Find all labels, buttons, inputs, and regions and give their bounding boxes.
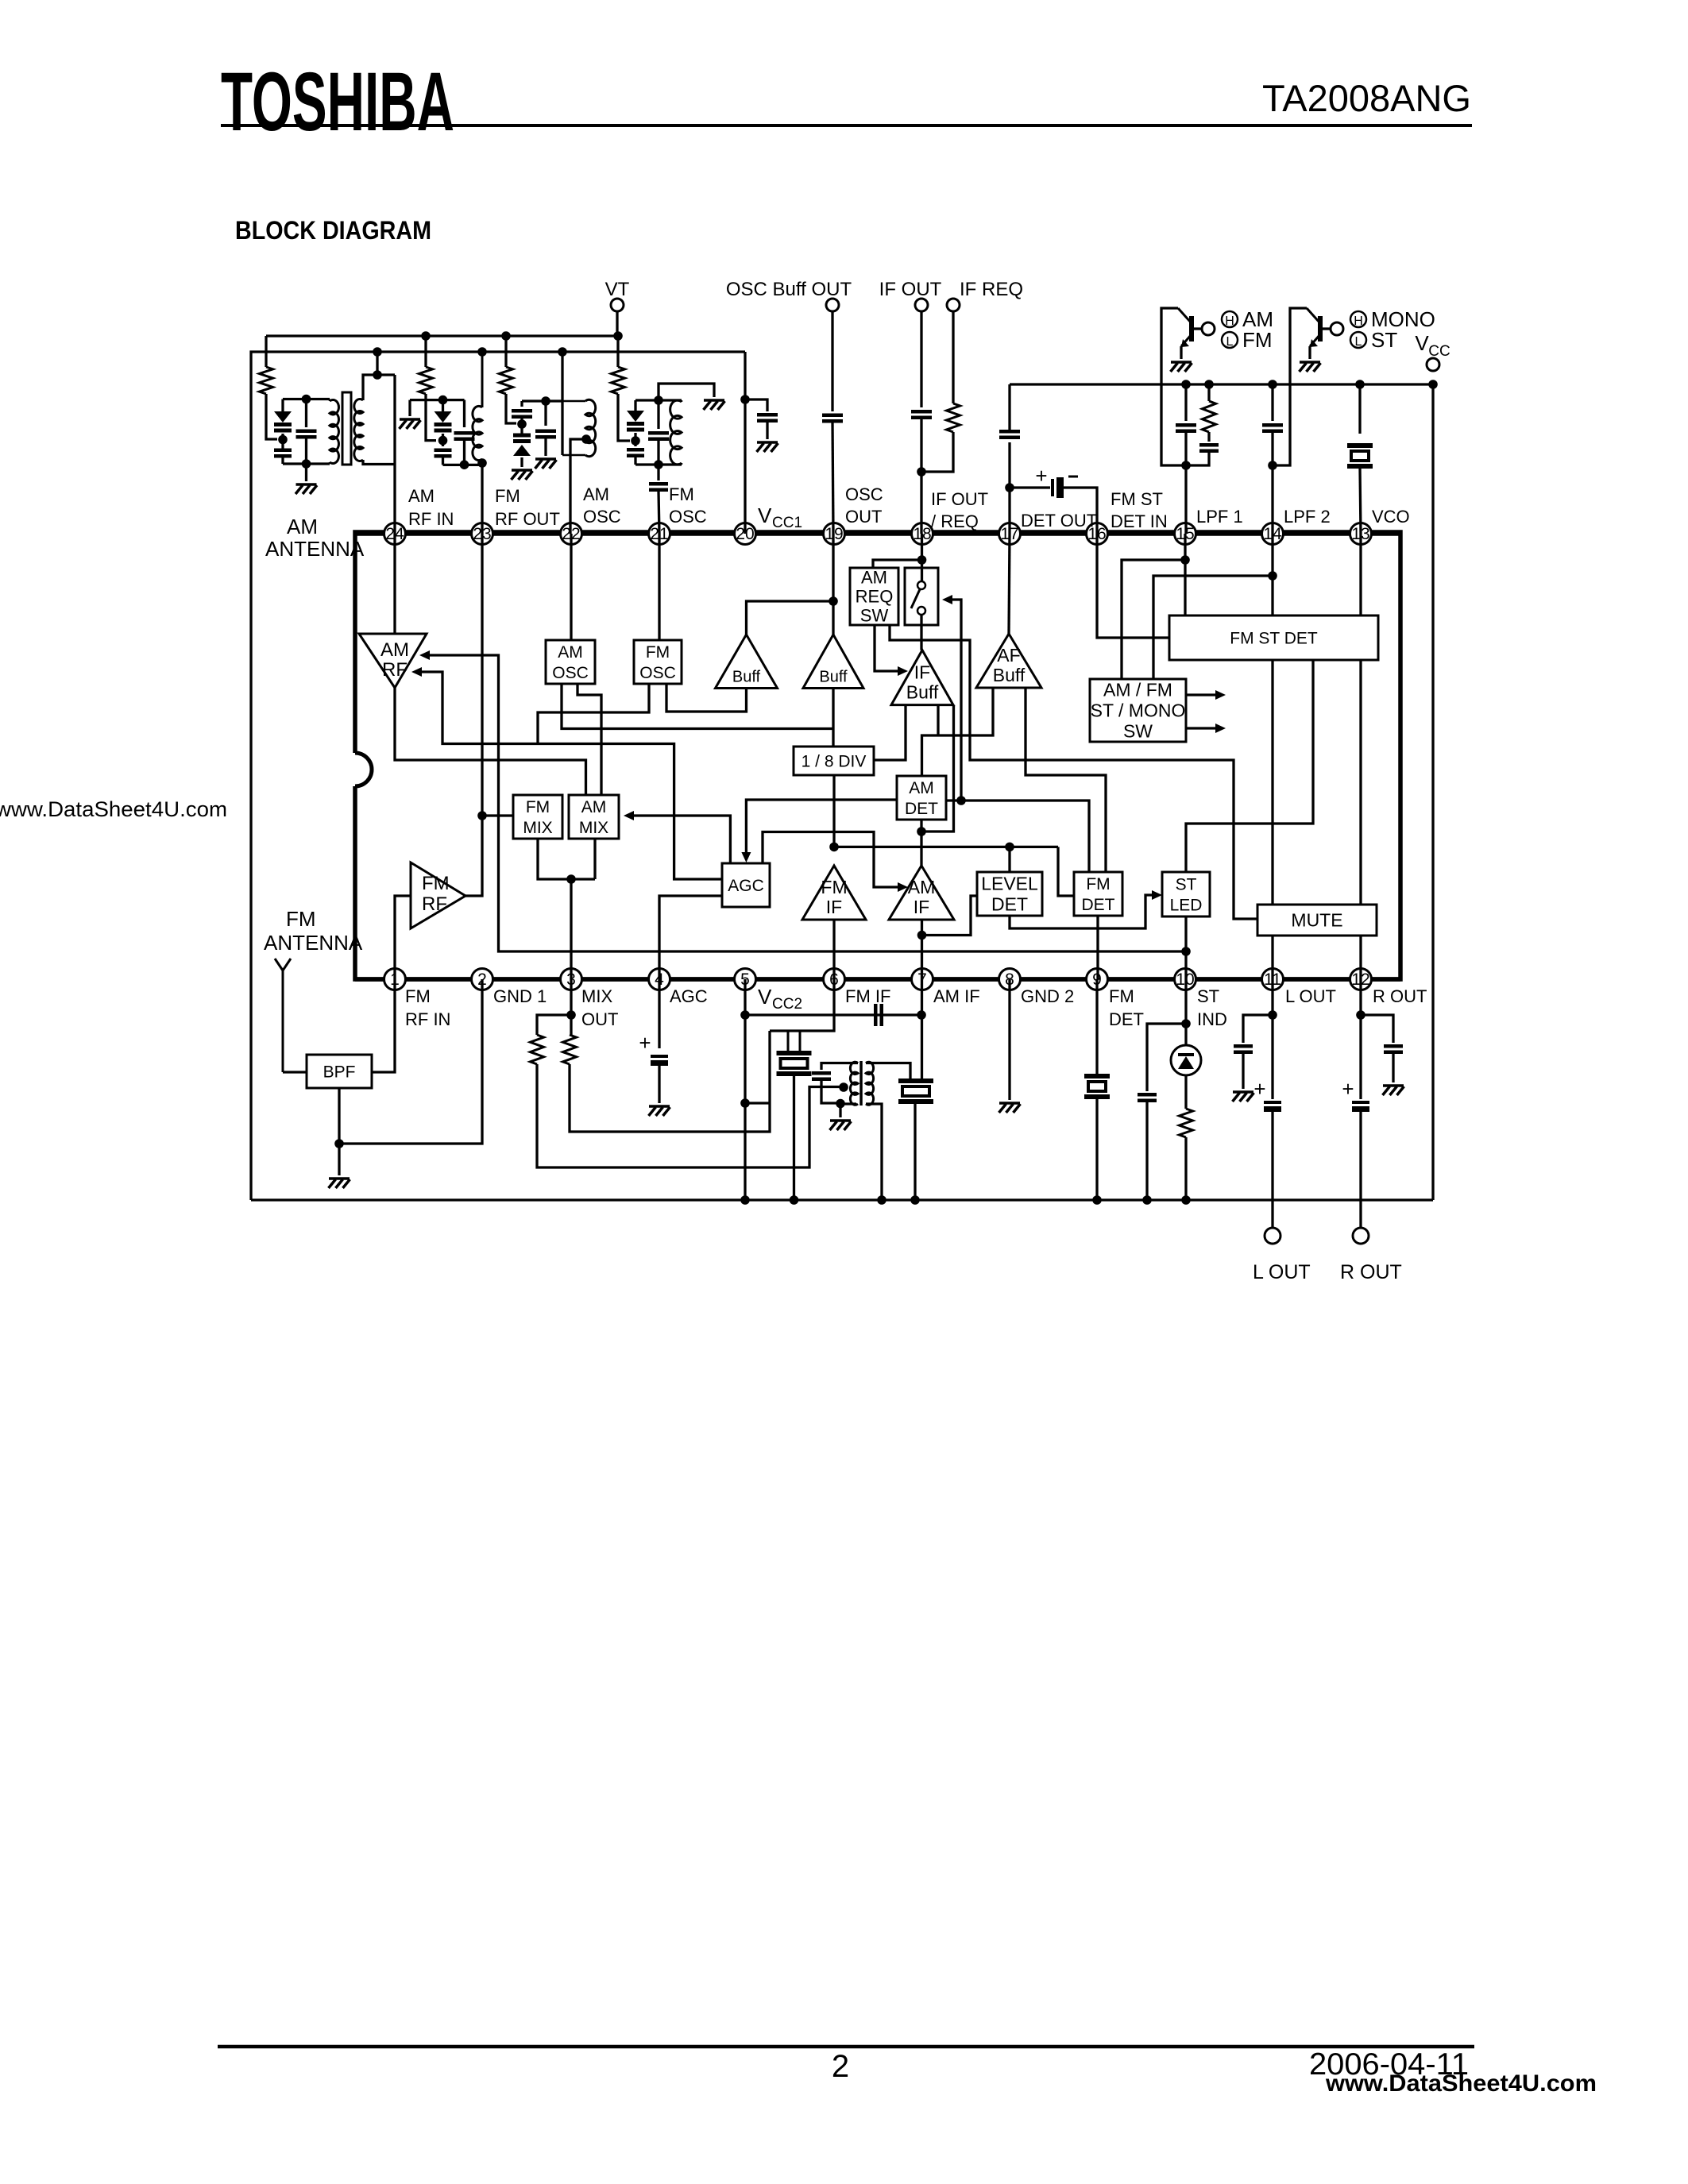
junction buff outs [829, 596, 838, 606]
wire pin21 to FM OSC [658, 534, 660, 640]
wire IF signal bus [834, 846, 1058, 848]
buffer Buff2 [803, 635, 863, 689]
wire ST LED to pin10 [1184, 916, 1187, 979]
resistor R2 [424, 336, 427, 367]
wire IF Buff out [937, 705, 939, 735]
wire antenna to BPF [283, 1071, 307, 1073]
wire T1 secondary top to CF2 [866, 1063, 910, 1082]
wire Q1 emitter [1180, 346, 1182, 359]
wire gnd stem [408, 400, 411, 416]
junction vcc-13 [1355, 380, 1365, 389]
junction FM IF out [829, 843, 839, 852]
wire pin24 to AM RF [393, 534, 396, 634]
wire tank to ground [305, 464, 307, 481]
wire pin11 RC branch [1243, 1015, 1273, 1043]
svg-text:RF IN: RF IN [408, 509, 454, 529]
junction R9 rail [1181, 1195, 1191, 1205]
wire FM RF output [465, 816, 482, 896]
svg-text:L OUT: L OUT [1253, 1261, 1311, 1283]
ground BPF [329, 1177, 350, 1180]
wire pin14 internal [1271, 534, 1273, 615]
svg-text:FM: FM [286, 907, 316, 931]
svg-text:FM ST: FM ST [1111, 489, 1163, 509]
svg-text:DET IN: DET IN [1111, 511, 1168, 531]
svg-text:Buff: Buff [906, 682, 939, 703]
junction sec top [373, 370, 382, 380]
junction C16 pin7 [917, 1010, 926, 1020]
junction rail-L2 [477, 347, 487, 357]
junction pin14 ext [1268, 461, 1277, 470]
capacitor C4 [544, 401, 547, 426]
wire pin8 ext GND2 [1008, 979, 1010, 1100]
svg-text:AM: AM [558, 643, 583, 662]
FM-RF tank bottom rail [443, 464, 483, 466]
svg-text:IND: IND [1197, 1009, 1227, 1029]
svg-text:FM: FM [821, 877, 847, 897]
svg-text:DET OUT: DET OUT [1021, 511, 1097, 531]
amplifier AM IF [889, 866, 954, 920]
svg-text:SW: SW [1123, 721, 1153, 742]
junction bpf gnd [334, 1139, 344, 1148]
wire AM OSC out right to AM MIX [577, 684, 601, 795]
svg-text:+: + [1253, 1077, 1265, 1101]
svg-text:ANTENNA: ANTENNA [265, 537, 365, 561]
wire pin18 into switch [921, 560, 923, 581]
pin 17 [999, 523, 1021, 545]
wire AM OSC out left [562, 684, 833, 729]
wire pin3 ext [570, 979, 572, 1035]
wire T1 gnd stem [839, 1104, 841, 1118]
svg-text:OUT: OUT [581, 1009, 618, 1029]
svg-text:FM: FM [646, 643, 670, 662]
ground T1 [830, 1119, 851, 1122]
wire VCC down right side [1431, 384, 1434, 1200]
pin 13 [1350, 523, 1372, 545]
svg-text:LEVEL: LEVEL [981, 874, 1038, 894]
wire C17 bottom [821, 1081, 840, 1103]
block FM DET [1074, 872, 1122, 916]
wire to Buff2 apex [832, 601, 834, 635]
wire to LEVEL DET [1008, 847, 1010, 872]
wire mixers to pin3 [538, 839, 595, 879]
svg-text:DET: DET [1082, 896, 1115, 914]
wire SW output 2 [1186, 727, 1218, 729]
capacitor C19 [1234, 1046, 1253, 1052]
svg-text:FM: FM [526, 798, 550, 816]
junction rail-VT [613, 331, 623, 341]
junction C5 top [654, 396, 663, 405]
pin 11 [1262, 969, 1284, 990]
junction AM DET fb [917, 827, 926, 836]
IC top pin row line [355, 531, 1400, 536]
inductor L3 AM OSC [562, 400, 585, 403]
wire pin15 to SW [1122, 560, 1185, 679]
svg-text:RF OUT: RF OUT [495, 509, 560, 529]
ground C15 [649, 1105, 670, 1108]
capacitor C9 series [920, 311, 922, 407]
junction IFOUT-IFREQ [917, 467, 926, 477]
junction L3 tap [581, 434, 591, 444]
wire 1/8 DIV to FM IF line [832, 775, 835, 847]
svg-text:FM: FM [495, 486, 520, 506]
junction level det [1005, 843, 1014, 852]
pin 18 [912, 523, 933, 545]
svg-text:IF OUT: IF OUT [931, 489, 988, 509]
pin 21 [649, 523, 670, 545]
transistor Q1 [1189, 316, 1194, 341]
junction FM RF out [477, 811, 487, 820]
inductor L2 FM RF choke [481, 352, 484, 407]
svg-text:OSC: OSC [583, 507, 621, 527]
ceramic filter CF2 [898, 1078, 933, 1083]
junction rail-ant [373, 347, 382, 357]
terminal OSC Buff OUT [826, 299, 839, 311]
capacitor under D2 [435, 450, 452, 457]
svg-text:AGC: AGC [670, 986, 708, 1006]
wire pin11 ext [1271, 979, 1273, 1099]
svg-text:BPF: BPF [323, 1063, 356, 1081]
ground D3 [512, 469, 532, 472]
wire secondary loop bottom [363, 460, 395, 465]
wire pin24 AM RF IN [393, 375, 396, 534]
wire Q1 collector [1161, 308, 1186, 465]
FM OSC top rail [635, 399, 682, 401]
wire switch to IF Buff [920, 615, 922, 650]
pin 16 [1087, 523, 1108, 545]
wire BPF to gnd / pin2 [338, 1088, 340, 1175]
AM tank top rail [283, 398, 330, 400]
ground C21 [1383, 1084, 1404, 1087]
svg-text:H: H [1354, 314, 1363, 328]
wire T1 secondary bottom [866, 1104, 882, 1200]
block MUTE [1257, 905, 1377, 936]
wire D1-C [281, 434, 284, 449]
svg-text:OUT: OUT [845, 507, 882, 527]
capacitor C7 bypass [745, 399, 767, 411]
svg-text:R OUT: R OUT [1373, 986, 1427, 1006]
wire to FM MIX input [482, 814, 513, 816]
svg-text:2: 2 [832, 2049, 849, 2084]
wire D1 bottom [281, 457, 284, 464]
wire pin12 RC branch [1361, 1015, 1393, 1043]
svg-text:R OUT: R OUT [1340, 1261, 1402, 1283]
junction C4 top [541, 396, 550, 406]
wire rail to AM OSC coil [561, 352, 563, 455]
ground Q1 [1171, 361, 1192, 364]
terminal IF REQ [947, 299, 960, 311]
svg-text:LED: LED [1170, 896, 1203, 914]
capacitor C21 [1384, 1046, 1403, 1052]
junction L2 bottom [477, 458, 487, 468]
wire pin12 ext [1359, 979, 1362, 1099]
buffer Buff1 [716, 635, 778, 689]
svg-text:FM: FM [1242, 328, 1273, 352]
wire pin4 ext [658, 979, 660, 1048]
wire AM REQ SW to IF Buff [875, 625, 898, 671]
svg-text:OSC Buff OUT: OSC Buff OUT [726, 279, 852, 300]
wire secondary loop top [363, 375, 395, 400]
svg-text:+: + [639, 1031, 651, 1055]
wire to L OUT terminal [1271, 1112, 1273, 1229]
varactor D1 [281, 399, 284, 412]
wire pin19 to buffers [832, 534, 834, 601]
electrolytic C15 AGC [651, 1055, 668, 1058]
AM tank bottom rail [283, 462, 330, 465]
junction pin10 [1181, 1019, 1191, 1028]
wire to Buff1 apex [747, 601, 834, 635]
ground FM OSC [704, 399, 724, 402]
junction vcc-corner [1428, 380, 1438, 389]
svg-text:/ REQ: / REQ [931, 511, 979, 531]
pin 24 [384, 523, 406, 545]
pin 15 [1175, 523, 1196, 545]
wire pin3 internal [570, 879, 572, 979]
wire AM DET to AGC [746, 800, 897, 855]
pin 14 [1262, 523, 1284, 545]
capacitor C13 under R6 [1207, 432, 1210, 442]
wire pin1 to FM RF [395, 896, 411, 979]
svg-text:AM: AM [408, 486, 435, 506]
block FM OSC [634, 640, 682, 684]
wire R7 to T1 tap [537, 1064, 844, 1167]
wire R3 to C3 mid [506, 394, 516, 423]
svg-text:LPF 1: LPF 1 [1196, 507, 1243, 527]
block AGC [722, 863, 770, 907]
amplifier FM IF [802, 866, 866, 920]
svg-text:FM: FM [669, 484, 694, 504]
svg-text:IF: IF [914, 662, 930, 683]
junction D2 top [438, 396, 448, 405]
transistor Q2 [1318, 316, 1323, 341]
svg-text:FM: FM [422, 873, 450, 894]
IC index notch [355, 753, 372, 786]
capacitor C5 [657, 400, 659, 429]
wire R5 to junction [921, 432, 953, 472]
svg-text:FM ST DET: FM ST DET [1230, 629, 1318, 647]
capacitor under D1 [274, 450, 292, 457]
junction D4 mid [631, 436, 640, 446]
svg-text:GND 1: GND 1 [493, 986, 547, 1006]
VCC1 supply rail lower / frame top left [251, 352, 745, 1200]
wire to FM DET in [1058, 847, 1074, 896]
wire R9 rail [1184, 1137, 1187, 1200]
capacitor C2 [463, 400, 465, 427]
svg-text:OSC: OSC [552, 664, 589, 682]
junction AM IF out [917, 931, 927, 940]
label H AM [1222, 311, 1238, 327]
wire BPF to pin1 [372, 979, 395, 1072]
svg-text:Buff: Buff [732, 669, 761, 686]
block AM DET [897, 776, 946, 820]
junction mix out [566, 874, 576, 884]
wire pin15 down [1184, 465, 1187, 534]
pin 1 [384, 969, 406, 990]
wire AGC to AM MIX [624, 811, 634, 820]
junction CF2 rail [910, 1195, 920, 1205]
IC bottom pin row line [355, 977, 1400, 982]
wire C21 gnd [1392, 1054, 1394, 1082]
VCC rail [1010, 383, 1433, 385]
wire LED to R9 [1184, 1075, 1187, 1109]
svg-text:1 / 8 DIV: 1 / 8 DIV [802, 752, 867, 770]
capacitor C18 [1138, 1094, 1157, 1101]
wire FM OSC out right to Buff [666, 684, 747, 712]
svg-text:FM: FM [1086, 875, 1110, 893]
junction pin15 ext [1181, 461, 1191, 470]
capacitor C16 series [875, 1004, 882, 1026]
junction rail-R3 [501, 331, 511, 341]
wire pin23 internal [481, 534, 483, 816]
resistor R7 mix load [537, 1015, 571, 1035]
wire D2 bottom [442, 457, 444, 465]
block AM OSC [546, 640, 595, 684]
wire pin5 to filter bias [745, 1102, 770, 1104]
wire Buff2 input [832, 689, 834, 747]
wire pin6 internal [832, 920, 835, 979]
wire 1/8 DIV out to IF Buff [874, 705, 906, 760]
ground AM tank [296, 483, 317, 486]
electrolytic C20 L OUT [1264, 1101, 1281, 1104]
resistor R3 [504, 336, 507, 367]
wire D2 mid [442, 434, 444, 446]
switch box [905, 568, 938, 625]
svg-text:CC2: CC2 [772, 996, 802, 1013]
wire rail to secondary [376, 352, 378, 375]
svg-text:VCO: VCO [1372, 507, 1410, 527]
junction D1 mid [278, 435, 288, 445]
wire pin16 to FM ST DET [1097, 534, 1169, 638]
pin 9 [1087, 969, 1108, 990]
svg-text:AM: AM [583, 484, 609, 504]
transformer T1 core [859, 1061, 863, 1106]
resistor R6 [1207, 384, 1210, 401]
pin 2 [472, 969, 493, 990]
terminal IF OUT [915, 299, 928, 311]
svg-text:MUTE: MUTE [1291, 910, 1342, 931]
wire FM ST DET out A [1271, 660, 1273, 979]
inductor L1b AM antenna secondary [354, 399, 363, 461]
IC body TA2008ANG outline [355, 532, 1400, 979]
wire R2 to varactor mid [426, 394, 436, 441]
junction D2 mid [438, 436, 448, 446]
block FM MIX [513, 795, 562, 839]
svg-text:www.DataSheet4U.com: www.DataSheet4U.com [0, 797, 227, 821]
junction T1 tap [839, 1082, 848, 1092]
wire FM ST DET to ST LED [1186, 660, 1313, 872]
block AM MIX [569, 795, 619, 839]
wire to R OUT terminal [1359, 1112, 1362, 1229]
junction vcc-15 [1181, 380, 1191, 389]
varactor D4 [634, 400, 636, 411]
svg-text:AM IF: AM IF [933, 986, 980, 1006]
FM OSC bottom rail [635, 463, 682, 465]
capacitor C8 series [831, 311, 833, 411]
wire R4 to varactor mid [618, 394, 630, 441]
wire FM OSC out left [538, 684, 649, 744]
resistor R8 [563, 1035, 577, 1064]
wire IF amp bus [922, 688, 994, 776]
wire FM ST DET out B [1359, 660, 1362, 979]
amplifier IF Buff [891, 650, 953, 705]
block 1/8 DIV [794, 747, 874, 775]
svg-text:www.DataSheet4U.com: www.DataSheet4U.com [1325, 2070, 1597, 2097]
inductor L1 AM bar antenna primary [330, 399, 338, 463]
svg-text:DET: DET [905, 800, 938, 818]
svg-text:ST: ST [1197, 986, 1219, 1006]
AM OSC top rail [522, 399, 562, 402]
svg-text:RF: RF [422, 893, 447, 915]
wire D4 bottom [634, 457, 636, 465]
terminal VT [611, 299, 624, 311]
wire rail to pin20 [744, 352, 746, 534]
label H MONO [1350, 311, 1366, 327]
capacitor C12 pin15 [1184, 384, 1187, 421]
wire pin6 ext [800, 979, 834, 1031]
wire T1 primary top [821, 1063, 858, 1071]
wire CF1 to rail [793, 1074, 795, 1200]
ground C4 [535, 457, 556, 461]
terminal Q1 base [1202, 322, 1215, 335]
svg-text:+: + [1342, 1077, 1354, 1101]
svg-text:FM: FM [405, 986, 431, 1006]
block AM REQ SW [850, 568, 898, 625]
svg-text:ST: ST [1371, 328, 1397, 352]
electrolytic C11 det out [1010, 486, 1050, 488]
pin 10 [1175, 969, 1196, 990]
svg-text:AM: AM [908, 877, 936, 897]
pin 7 [912, 969, 933, 990]
wire CF2 to rail [914, 1102, 916, 1200]
junction pin18 [917, 555, 927, 565]
block LEVEL DET [977, 872, 1042, 916]
svg-text:Buff: Buff [819, 669, 848, 686]
wire pin7 ext [921, 979, 923, 1081]
wire AM IF out to LEVEL DET [922, 896, 978, 936]
transformer T1 secondary [866, 1062, 874, 1105]
transformer T1 primary [850, 1062, 858, 1105]
junction st led fb [1181, 947, 1191, 956]
wire D4 mid [634, 433, 636, 446]
wire AGC third input [763, 832, 898, 888]
svg-text:AM / FM: AM / FM [1103, 680, 1172, 700]
wire AM DET right [946, 801, 1089, 872]
svg-text:BLOCK DIAGRAM: BLOCK DIAGRAM [235, 216, 431, 245]
wire SW output 1 [1186, 693, 1218, 696]
junction rail-L3 [558, 347, 567, 357]
wire to AM RF input 2 [411, 667, 422, 677]
capacitor C3 series [520, 401, 523, 407]
inductor L4 FM OSC [635, 399, 637, 402]
svg-text:SW: SW [860, 606, 889, 626]
junction pin5 a [740, 1010, 750, 1020]
footer rule [218, 2045, 1474, 2049]
wire R8 to CF1 [570, 1031, 770, 1132]
wire pin14 down [1271, 465, 1273, 534]
svg-text:CC1: CC1 [772, 515, 802, 531]
junction vcc-14 [1268, 380, 1277, 389]
ceramic resonator X1 VCO [1347, 443, 1373, 448]
wire to AM REQ SW [873, 560, 922, 568]
pin 5 [735, 969, 756, 990]
junction pin3 ext [566, 1010, 576, 1020]
wire pin4 to AGC [659, 896, 722, 979]
svg-text:ANTENNA: ANTENNA [264, 931, 363, 955]
wire AF Buff out to FM DET [1026, 688, 1106, 872]
svg-text:AM: AM [861, 568, 887, 588]
capacitor C1 AM tank [305, 399, 307, 428]
wire pin9 ext [1095, 979, 1098, 1076]
amplifier AM RF [359, 634, 427, 688]
